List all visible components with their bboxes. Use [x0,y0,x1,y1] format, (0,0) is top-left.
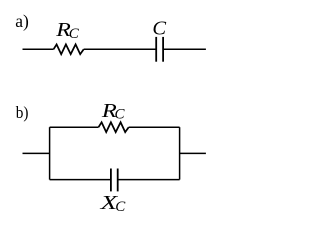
wire a left lead [23,48,54,50]
wire bottom branch left segment [50,179,111,181]
wire b right lead [180,152,206,154]
value label X_C (b) [99,192,118,214]
wire top branch left segment [50,126,99,128]
label b) [16,105,29,123]
wire top branch right segment [129,126,180,128]
svg-text:C: C [69,26,80,42]
wire a right lead [163,48,206,50]
wire parallel-block left vertical [49,127,51,179]
capacitor X_C (parallel circuit b, bottom branch) [110,169,112,192]
svg-text:b): b) [16,105,29,123]
wire a middle [84,48,157,50]
wire bottom branch right segment [118,179,180,181]
resistor R_C (parallel circuit b, top branch) [99,122,129,132]
label a) [15,11,29,31]
svg-text:C: C [115,107,126,123]
capacitor C (series circuit a) [155,37,157,62]
wire b left lead [23,152,50,154]
value label R_C (b) [101,99,117,121]
value label C (a) [152,17,166,39]
wire parallel-block right vertical [179,127,181,179]
resistor R_C (series circuit a) [54,44,84,54]
svg-text:a): a) [15,11,29,31]
svg-text:C: C [115,199,126,215]
value label R_C (a) [55,18,71,41]
svg-text:C: C [152,17,166,39]
